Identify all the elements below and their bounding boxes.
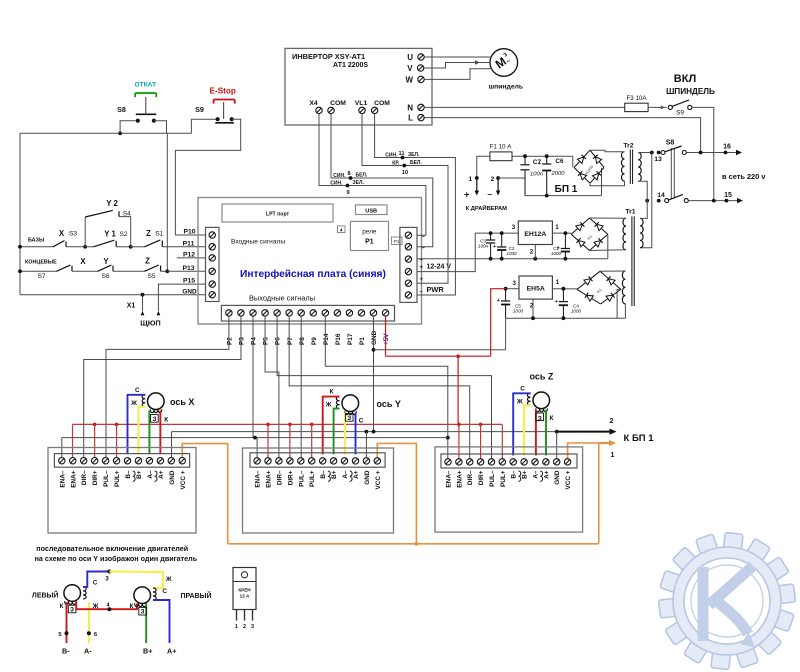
svg-text:КОНЦЕВЫЕ: КОНЦЕВЫЕ: [25, 260, 57, 266]
svg-text:последовательное включение дви: последовательное включение двигателей: [36, 544, 188, 553]
svg-text:A+: A+: [158, 470, 165, 479]
wire: minus rail to board: [417, 258, 608, 260]
USB box: [356, 205, 388, 215]
svg-text:БП 1: БП 1: [555, 184, 578, 195]
svg-text:ENA–: ENA–: [446, 470, 453, 487]
inverter XSY-AT1 box: [285, 48, 432, 125]
probe X1 contacts: [141, 311, 145, 315]
svg-text:ЗЕЛ.: ЗЕЛ.: [353, 180, 365, 186]
svg-text:Входные сигналы: Входные сигналы: [231, 239, 285, 246]
svg-text:2: 2: [243, 624, 246, 630]
wire: BP1 minus output: [496, 176, 500, 180]
svg-text:GND: GND: [554, 470, 561, 485]
svg-text:С: С: [93, 579, 98, 586]
svg-text:13: 13: [654, 156, 662, 163]
svg-text:1: 1: [611, 452, 615, 459]
svg-text:ОТКАТ: ОТКАТ: [134, 81, 156, 88]
stepper motor Y: [342, 395, 359, 412]
svg-text:Y 2: Y 2: [106, 199, 118, 208]
wire: rail up to E-stop left contact: [191, 119, 215, 133]
svg-text:B–: B–: [320, 470, 327, 479]
svg-text:S4: S4: [123, 210, 131, 217]
capacitor C1 1000: [564, 233, 566, 248]
wire: motor Z red: [535, 410, 537, 456]
svg-text:1: 1: [468, 176, 472, 183]
wire: GND arrow 2 to BP1: [557, 431, 611, 433]
svg-text:A–: A–: [342, 470, 349, 479]
svg-text:DIR–: DIR–: [467, 470, 474, 485]
svg-text:Tr2: Tr2: [623, 143, 633, 150]
svg-text:B+: B+: [136, 470, 143, 479]
svg-text:ЩЮП: ЩЮП: [140, 319, 160, 328]
wire: top DC rail: [512, 155, 573, 157]
stepper motor X: [148, 393, 165, 410]
svg-text:Ж: Ж: [130, 400, 137, 407]
switch S7 (X limit): [20, 270, 57, 272]
svg-text:P2: P2: [227, 337, 234, 345]
svg-text:B–: B–: [511, 470, 518, 479]
svg-text:+: +: [493, 244, 496, 250]
driver box axis Z (3): [435, 447, 583, 532]
svg-text:ENA+: ENA+: [70, 470, 77, 487]
orange VCC wire driver1: [182, 444, 227, 544]
wire: pravyi green to B+: [145, 604, 147, 643]
svg-text:+: +: [555, 299, 558, 305]
wire: probe prong 1: [142, 295, 144, 311]
svg-text:+: +: [420, 277, 424, 283]
wire: 12-24V plus to board: [417, 233, 518, 272]
svg-text:АТ1 2200S: АТ1 2200S: [333, 62, 368, 69]
svg-text:COM: COM: [374, 100, 390, 107]
pushbutton S9 (E-Stop): [216, 117, 220, 121]
svg-text:А+: А+: [167, 647, 176, 656]
svg-text:PUL+: PUL+: [500, 470, 507, 487]
svg-text:+5V: +5V: [383, 333, 390, 345]
svg-text:U: U: [407, 53, 413, 62]
svg-text:PUL–: PUL–: [103, 470, 110, 487]
wire: GND from board down: [373, 316, 375, 432]
wire: bridge3 to Tr1 secondary 2: [600, 270, 625, 272]
svg-text:ШПИНДЕЛЬ: ШПИНДЕЛЬ: [666, 87, 715, 96]
svg-text:PUL+: PUL+: [114, 470, 121, 487]
svg-text:VCC +: VCC +: [180, 470, 187, 489]
svg-text:L: L: [408, 114, 413, 123]
splice node 10: [402, 164, 406, 168]
svg-text:В-: В-: [62, 647, 70, 656]
svg-text:1000: 1000: [551, 251, 562, 256]
svg-text:P3: P3: [239, 337, 246, 345]
svg-text:ось Y: ось Y: [377, 399, 401, 409]
svg-text:К БП 1: К БП 1: [624, 433, 655, 444]
svg-text:F3 10А: F3 10А: [627, 95, 648, 102]
svg-text:USB: USB: [365, 208, 377, 214]
wire: W to motor: [424, 69, 491, 80]
svg-text:15: 15: [724, 192, 732, 199]
svg-text:B+: B+: [331, 470, 338, 479]
svg-text:реле: реле: [362, 229, 377, 236]
svg-text:2000: 2000: [551, 171, 566, 177]
wire: GND tie to EH5A ground: [374, 349, 491, 351]
svg-text:шпиндель: шпиндель: [488, 83, 523, 90]
wire: BP1 plus output: [477, 156, 490, 178]
output terminal strip: [221, 305, 394, 321]
svg-text:ЕН12А: ЕН12А: [524, 231, 546, 238]
svg-text:S7: S7: [37, 273, 45, 280]
svg-text:PUL–: PUL–: [489, 470, 496, 487]
svg-text:ЛЕВЫЙ: ЛЕВЫЙ: [32, 591, 59, 600]
wire: red series link node 4: [76, 601, 137, 609]
svg-text:PUL+: PUL+: [309, 470, 316, 487]
svg-text:X: X: [80, 257, 86, 266]
pushbutton S8 (OTKAT): [136, 119, 140, 123]
switch S3 (X axis home): [20, 246, 53, 248]
svg-text:БАЗЫ: БАЗЫ: [28, 237, 44, 243]
KREN legs: [236, 610, 238, 621]
orange VCC wire driver2: [377, 443, 416, 543]
node: bases row junction 1: [83, 245, 87, 249]
svg-text:F1 10 А: F1 10 А: [490, 143, 513, 150]
svg-text:К: К: [550, 415, 554, 422]
svg-text:8: 8: [347, 171, 350, 177]
wire: S9 to down node: [692, 107, 714, 200]
svg-text:2: 2: [491, 176, 495, 183]
capacitor C5 1000: [505, 289, 507, 301]
wire: U to motor: [424, 56, 491, 58]
wire: EH12A input: [552, 232, 571, 234]
GND bus: [172, 431, 557, 433]
wire: 15 line to mains: [688, 200, 739, 202]
svg-text:С: С: [359, 417, 364, 424]
wire: VL1 to terminal 5: [362, 114, 448, 284]
svg-text:3: 3: [251, 624, 254, 630]
wire: EH5A output red to +5 bus: [504, 287, 508, 291]
wire: COM to terminal 2: [331, 114, 433, 247]
wire: motor Z green: [545, 410, 547, 456]
svg-text:К ДРАЙВЕРАМ: К ДРАЙВЕРАМ: [466, 204, 508, 212]
svg-text:S9: S9: [676, 110, 684, 117]
svg-text:9: 9: [346, 190, 349, 196]
wire: Tr1 primary top to node 14: [640, 201, 647, 219]
node: P14 line on ENA bus: [446, 436, 450, 440]
svg-text:P6: P6: [275, 337, 282, 345]
svg-text:GND: GND: [371, 330, 378, 345]
svg-text:DIR+: DIR+: [478, 470, 485, 485]
svg-text:1: 1: [235, 624, 238, 630]
node 14: [645, 199, 649, 203]
svg-text:V: V: [407, 64, 413, 73]
wire: left frame vertical: [19, 133, 21, 294]
svg-text:P1: P1: [394, 239, 400, 244]
svg-text:1000: 1000: [571, 309, 582, 314]
svg-text:Y 1: Y 1: [104, 229, 116, 238]
wire: P4 to ENA bus: [252, 316, 254, 438]
stepper motor Z: [533, 392, 550, 409]
wire: L line down to switch node: [424, 118, 700, 153]
wire: levyi blue to node 3: [83, 572, 109, 587]
svg-text:С: С: [162, 588, 167, 595]
svg-text:4: 4: [340, 227, 343, 232]
svg-text:Ж: Ж: [325, 402, 332, 409]
svg-text:Y: Y: [103, 257, 109, 266]
wire: pravyi blue to A+: [153, 600, 170, 643]
svg-text:С: С: [135, 387, 140, 394]
svg-text:C6: C6: [555, 158, 564, 165]
+5V red feed: [385, 316, 387, 356]
svg-text:P1: P1: [359, 337, 366, 345]
svg-text:ПРАВЫЙ: ПРАВЫЙ: [180, 591, 211, 600]
wire: P7 to driver3 DIR-: [289, 316, 470, 459]
svg-text:ENA+: ENA+: [266, 470, 273, 487]
wire: up to OTKAT button left contact: [120, 121, 135, 134]
svg-text:P9: P9: [311, 337, 318, 345]
svg-text:К: К: [60, 603, 64, 610]
svg-text:16: 16: [723, 144, 731, 151]
svg-text:СИН.: СИН.: [330, 181, 343, 187]
svg-text:A–: A–: [533, 470, 540, 479]
svg-text:А-: А-: [84, 647, 92, 656]
svg-text:ось Z: ось Z: [530, 372, 554, 382]
wire: main top rail: [20, 132, 191, 134]
svg-text:W: W: [405, 75, 413, 84]
svg-text:+: +: [464, 189, 470, 200]
svg-text:Ж: Ж: [516, 398, 523, 405]
capacitor C4 1000: [562, 289, 564, 302]
node: bases row junction 2: [129, 245, 133, 249]
svg-text:X1: X1: [127, 303, 136, 310]
svg-text:COM: COM: [330, 100, 346, 107]
wire: motor X yellow: [138, 407, 145, 454]
svg-text:Интерфейсная плата (синяя): Интерфейсная плата (синяя): [240, 268, 386, 280]
svg-text:1: 1: [555, 224, 559, 231]
svg-text:P11: P11: [183, 240, 195, 247]
wire: bases row to P11: [162, 246, 205, 248]
svg-text:+: +: [497, 298, 500, 304]
svg-text:S5: S5: [147, 273, 155, 280]
diode bridge VD1: [574, 150, 590, 167]
svg-text:3: 3: [512, 224, 516, 231]
svg-text:P14: P14: [323, 333, 330, 345]
svg-text:КР.: КР.: [392, 161, 400, 167]
node 3: [107, 570, 111, 574]
svg-text:100n: 100n: [530, 172, 543, 178]
wire: bridge2 to Tr1 secondary 1: [590, 217, 627, 219]
svg-text:Tr1: Tr1: [625, 209, 635, 216]
svg-text:В+: В+: [143, 647, 152, 656]
svg-text:Ж: Ж: [165, 576, 172, 583]
svg-text:СИН.: СИН.: [385, 153, 398, 159]
svg-text:К: К: [164, 416, 168, 423]
svg-text:К: К: [330, 389, 334, 396]
wire: Tr2 primary bottom to node 14: [638, 181, 647, 200]
wire: COM2 to terminal 6: [375, 114, 456, 295]
wire: bottom DC rail: [525, 195, 602, 197]
svg-text:1000: 1000: [506, 251, 517, 256]
svg-text:GND: GND: [182, 288, 197, 295]
wire: yellow node3 to pravyi: [109, 572, 163, 589]
svg-text:100н: 100н: [478, 244, 489, 249]
wire: P3 to driver1 DIR-: [84, 316, 241, 458]
wire: P5 to driver2 DIR-: [265, 316, 279, 458]
node: rail junction to S8 button: [118, 131, 122, 135]
node 13: [650, 151, 654, 155]
svg-text:N: N: [407, 103, 413, 112]
svg-text:БЕЛ.: БЕЛ.: [410, 160, 422, 166]
wire: motor Z yellow: [524, 405, 531, 455]
diode bridge VD3: [577, 271, 600, 289]
svg-text:P7: P7: [287, 337, 294, 345]
wire: motor Y yellow: [344, 413, 346, 455]
svg-text:ENA–: ENA–: [59, 470, 66, 487]
wire: limits row to P13 terminal: [167, 270, 205, 272]
svg-text:в сеть 220 v: в сеть 220 v: [722, 172, 766, 181]
wire: P2 to driver1 PUL-: [106, 316, 229, 458]
svg-text:S3: S3: [69, 231, 77, 238]
driver box axis X (1): [48, 448, 196, 534]
wire: X4 to terminal 1: [319, 114, 426, 236]
svg-text:S8: S8: [117, 105, 126, 114]
svg-text:ENA–: ENA–: [255, 470, 262, 487]
switch S9 (spindle on): [668, 105, 672, 109]
svg-text:2: 2: [610, 418, 614, 425]
svg-text:S9: S9: [195, 105, 204, 114]
svg-text:P5: P5: [263, 337, 270, 345]
wire: motor Z blue: [513, 393, 530, 455]
svg-text:B–: B–: [125, 470, 132, 479]
svg-text:VCC +: VCC +: [375, 470, 382, 489]
watermark gear logo: [723, 532, 743, 551]
svg-text:на схеме по оси Y изображон од: на схеме по оси Y изображон один двигате…: [35, 554, 198, 563]
voltage regulator KREN 12A: [233, 568, 256, 610]
interface board (blue) outline: [198, 198, 422, 325]
svg-text:E-Stop: E-Stop: [210, 86, 236, 95]
wire: E-stop right contact to P10: [175, 119, 240, 235]
svg-text:GND: GND: [364, 470, 371, 485]
svg-text:DIR+: DIR+: [287, 470, 294, 485]
svg-text:S6: S6: [101, 273, 109, 280]
splice node 11: [401, 156, 405, 160]
wire: GND bottom line: [20, 294, 206, 296]
svg-text:X: X: [59, 229, 65, 238]
svg-text:Z: Z: [146, 229, 151, 238]
svg-text:2: 2: [530, 249, 534, 256]
svg-text:P10: P10: [183, 229, 195, 236]
svg-text:VCC +: VCC +: [565, 470, 572, 489]
node: GND tie to PSU: [372, 348, 376, 352]
wire: 16 line to mains: [686, 152, 738, 154]
svg-text:ВКЛ: ВКЛ: [674, 73, 696, 85]
svg-text:P8: P8: [299, 337, 306, 345]
svg-text:DIR–: DIR–: [276, 470, 283, 485]
svg-text:К: К: [130, 603, 134, 610]
regulator EH5A: [519, 276, 552, 299]
svg-text:12 А: 12 А: [240, 594, 250, 599]
wire: V to motor with arrow: [424, 63, 490, 69]
svg-text:ЕН5А: ЕН5А: [527, 286, 545, 293]
svg-text:Z: Z: [145, 256, 150, 265]
svg-text:ИНВЕРТОР XSY-AT1: ИНВЕРТОР XSY-AT1: [292, 52, 365, 61]
LPT port box: [222, 204, 333, 222]
svg-text:P4: P4: [251, 337, 258, 345]
svg-text:P1: P1: [365, 239, 374, 246]
wire: EH5A input: [552, 288, 577, 290]
svg-text:С: С: [520, 385, 525, 392]
svg-text:A+: A+: [543, 470, 550, 479]
svg-text:X4: X4: [309, 100, 318, 107]
svg-text:ось X: ось X: [170, 397, 194, 407]
wire: levyi red to B-: [66, 602, 68, 643]
motor PRAVYI: [134, 587, 151, 604]
switch S4 (Y2) parallel branch: [84, 217, 86, 247]
capacitor C7 100n: [524, 156, 526, 165]
svg-text:DIR+: DIR+: [92, 470, 99, 485]
svg-text:З: З: [538, 415, 542, 422]
diode bridge VD2: [571, 218, 589, 234]
wire: node 13 down to Tr1 primary bottom: [640, 153, 652, 248]
svg-text:КРЕН: КРЕН: [238, 588, 251, 593]
motor LEVYI: [64, 585, 81, 602]
svg-text:A–: A–: [147, 470, 154, 479]
input terminal strip: [206, 227, 220, 301]
svg-text:P16: P16: [335, 333, 342, 345]
svg-text:S1: S1: [155, 230, 163, 237]
svg-text:S2: S2: [119, 231, 127, 238]
node: limits row to P13: [165, 269, 169, 273]
right terminal strip: [400, 227, 417, 302]
wire: motor Y green: [334, 409, 340, 455]
svg-text:PWR: PWR: [427, 285, 445, 294]
small tab P1: [392, 237, 403, 245]
ENA common bus: [62, 437, 448, 439]
orange VCC wire driver3 and arrow 1: [568, 443, 599, 544]
svg-text:1000: 1000: [513, 309, 524, 314]
svg-text:+: +: [538, 161, 541, 167]
svg-text:S8: S8: [666, 139, 675, 146]
wire: levyi yellow to A-: [88, 602, 90, 643]
switch S1 (Z): [131, 246, 145, 248]
small connector 4: [338, 226, 346, 233]
spindle motor: [490, 49, 518, 77]
wire: vertical from rail down to P13 row: [166, 133, 168, 271]
svg-text:11: 11: [399, 151, 405, 157]
svg-text:P13: P13: [182, 265, 194, 272]
svg-text:VL1: VL1: [355, 100, 368, 107]
switch S5 (Z limit): [145, 265, 159, 271]
svg-text:Выходные сигналы: Выходные сигналы: [249, 294, 315, 303]
svg-text:P15: P15: [183, 278, 195, 285]
wire: P12 stub: [177, 257, 206, 259]
wire: motor X red: [159, 411, 161, 455]
orange VCC bus bottom: [228, 543, 599, 545]
wire: EH5A ground rail: [506, 317, 617, 319]
switch S2 (Y1): [85, 246, 93, 248]
svg-text:10: 10: [402, 170, 408, 176]
driver box axis Y (2): [243, 448, 394, 533]
svg-text:LPT порт: LPT порт: [266, 212, 290, 218]
capacitor C3 100n: [490, 233, 492, 240]
wire: motor X blue: [128, 395, 146, 454]
wire: P14 to driver3 ENA-: [325, 316, 448, 459]
svg-text:P17: P17: [347, 333, 354, 345]
svg-text:–: –: [487, 189, 492, 199]
svg-text:ENA+: ENA+: [456, 470, 463, 487]
+5V red bus: [73, 423, 503, 425]
svg-text:3: 3: [512, 280, 516, 287]
wire: motor Y red: [323, 397, 340, 455]
svg-text:A+: A+: [353, 470, 360, 479]
wire: P6 to driver3 PUL-: [277, 316, 491, 459]
svg-text:БЕЛ.: БЕЛ.: [356, 173, 368, 179]
relay P1 box: [350, 221, 388, 250]
